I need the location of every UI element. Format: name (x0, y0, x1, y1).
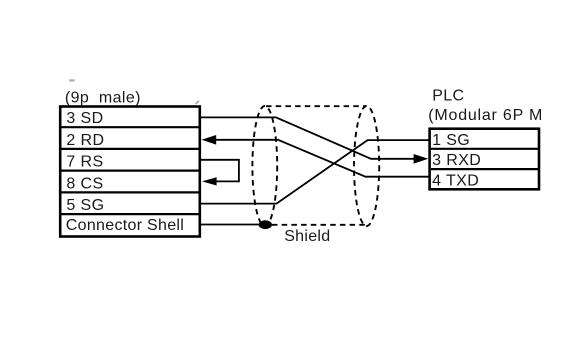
svg-text:3 SD: 3 SD (66, 110, 103, 127)
svg-text:7 RS: 7 RS (66, 154, 103, 171)
cable sheath bottom dashed line (272, 224, 366, 226)
svg-text:Shield: Shield (284, 228, 330, 245)
wire Connector Shell to shield (201, 224, 261, 226)
svg-text:3 RXD: 3 RXD (432, 152, 481, 169)
arrowhead into 2 RD (202, 135, 217, 145)
svg-text:5 SG: 5 SG (66, 197, 104, 214)
svg-text:PLC: PLC (432, 88, 464, 105)
connector body D-sub (9p male) (60, 107, 200, 237)
cable sheath left ellipse (252, 106, 277, 226)
wire RS-CS loopback (201, 160, 239, 182)
shield junction dot (259, 220, 272, 229)
cable sheath top dashed line (266, 105, 366, 107)
connector body PLC modular 6P (430, 129, 539, 190)
wire SD to RXD (201, 117, 415, 158)
svg-text:1 SG: 1 SG (432, 132, 470, 149)
stray faint mark above left header (69, 79, 74, 81)
svg-text:(Modular 6P M: (Modular 6P M (428, 107, 543, 124)
svg-text:Connector Shell: Connector Shell (66, 217, 184, 234)
wire SG to SG (201, 140, 429, 204)
cable sheath right ellipse (354, 106, 379, 226)
stray faint tick near table top-right (196, 101, 200, 104)
arrowhead into 8 CS (202, 177, 217, 185)
svg-text:2 RD: 2 RD (66, 132, 104, 149)
svg-text:4 TXD: 4 TXD (432, 173, 479, 190)
svg-text:8 CS: 8 CS (66, 175, 103, 192)
arrowhead into 3 RXD (414, 154, 429, 164)
svg-text:(9p male): (9p male) (65, 89, 141, 106)
wire TXD to RD (216, 140, 429, 177)
